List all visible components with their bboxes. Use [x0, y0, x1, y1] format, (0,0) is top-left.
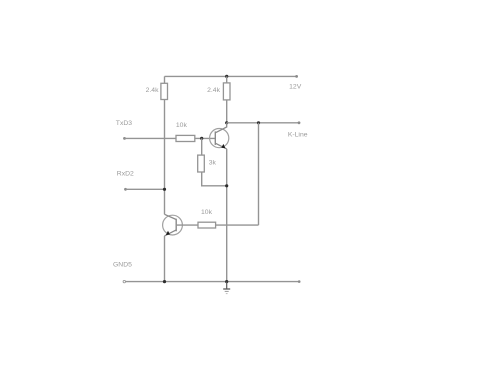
junction RxD2 node [163, 188, 166, 191]
transistor T2 emitter arrow [166, 231, 170, 235]
transistor T2 emitter [165, 230, 177, 236]
junction ground rail T1 emitter [225, 280, 228, 283]
terminal GND5 [123, 280, 125, 282]
svg-text:2.4k: 2.4k [207, 87, 220, 94]
svg-text:12V: 12V [289, 83, 302, 90]
junction K-Line to 10k branch [257, 121, 260, 124]
svg-text:3k: 3k [209, 160, 217, 167]
resistor R5 10k [198, 222, 216, 228]
svg-text:10k: 10k [176, 122, 188, 129]
terminal RxD2 [124, 188, 127, 191]
resistor R1 2.4k [161, 83, 168, 99]
transistor T1 emitter arrow [221, 144, 225, 148]
svg-text:RxD2: RxD2 [117, 171, 134, 178]
junction emitter / R4 [225, 184, 228, 187]
wire T2 base to R5 [176, 224, 198, 226]
transistor T2 collector [165, 214, 177, 219]
svg-text:10k: 10k [201, 209, 213, 216]
ground symbol [223, 282, 230, 294]
wire ground rail [126, 281, 300, 283]
terminal ground rail right [298, 280, 301, 283]
svg-text:GND5: GND5 [113, 261, 132, 268]
wire 12V top rail [165, 75, 297, 77]
junction base node [200, 137, 203, 140]
junction on top rail at column 2 [225, 75, 228, 78]
terminal 12V [295, 75, 298, 78]
wire column1 R1 bottom to T2 collector [164, 100, 166, 215]
transistor T1 base bar [214, 131, 216, 145]
wire R4 bottom [202, 172, 227, 186]
wire TxD3 to R3 [125, 137, 177, 139]
transistor T1 collector [215, 123, 226, 133]
wire base node down to R4 [201, 138, 203, 155]
svg-text:TxD3: TxD3 [116, 120, 132, 127]
wire top rail to R2 [226, 76, 228, 83]
wire T1 emitter down to ground rail [226, 149, 228, 282]
wire riser to K-Line [258, 123, 260, 225]
wire top rail to R1 [164, 76, 166, 83]
resistor R3 10k [176, 135, 195, 141]
wire RxD2 to column1 [126, 188, 165, 190]
wire R2 bottom to K-Line node [226, 100, 228, 123]
wire R5 to riser [216, 224, 259, 226]
terminal K-Line [298, 121, 301, 124]
terminal TxD3 [123, 137, 126, 140]
svg-text:K-Line: K-Line [288, 131, 308, 138]
resistor R2 2.4k [223, 83, 230, 100]
wire K-Line horizontal [227, 122, 299, 124]
transistor T1 emitter [215, 143, 226, 149]
wire R3 to T1 base [195, 137, 216, 139]
transistor T2 base bar [175, 219, 177, 232]
transistor T2 circle [163, 215, 183, 235]
transistor T1 circle [210, 129, 229, 148]
wire T2 emitter down to ground rail [164, 236, 166, 282]
node K-Line junction [225, 121, 228, 124]
junction ground rail T2 emitter [163, 280, 166, 283]
resistor R4 3k [198, 155, 205, 172]
svg-text:2.4k: 2.4k [146, 87, 159, 94]
